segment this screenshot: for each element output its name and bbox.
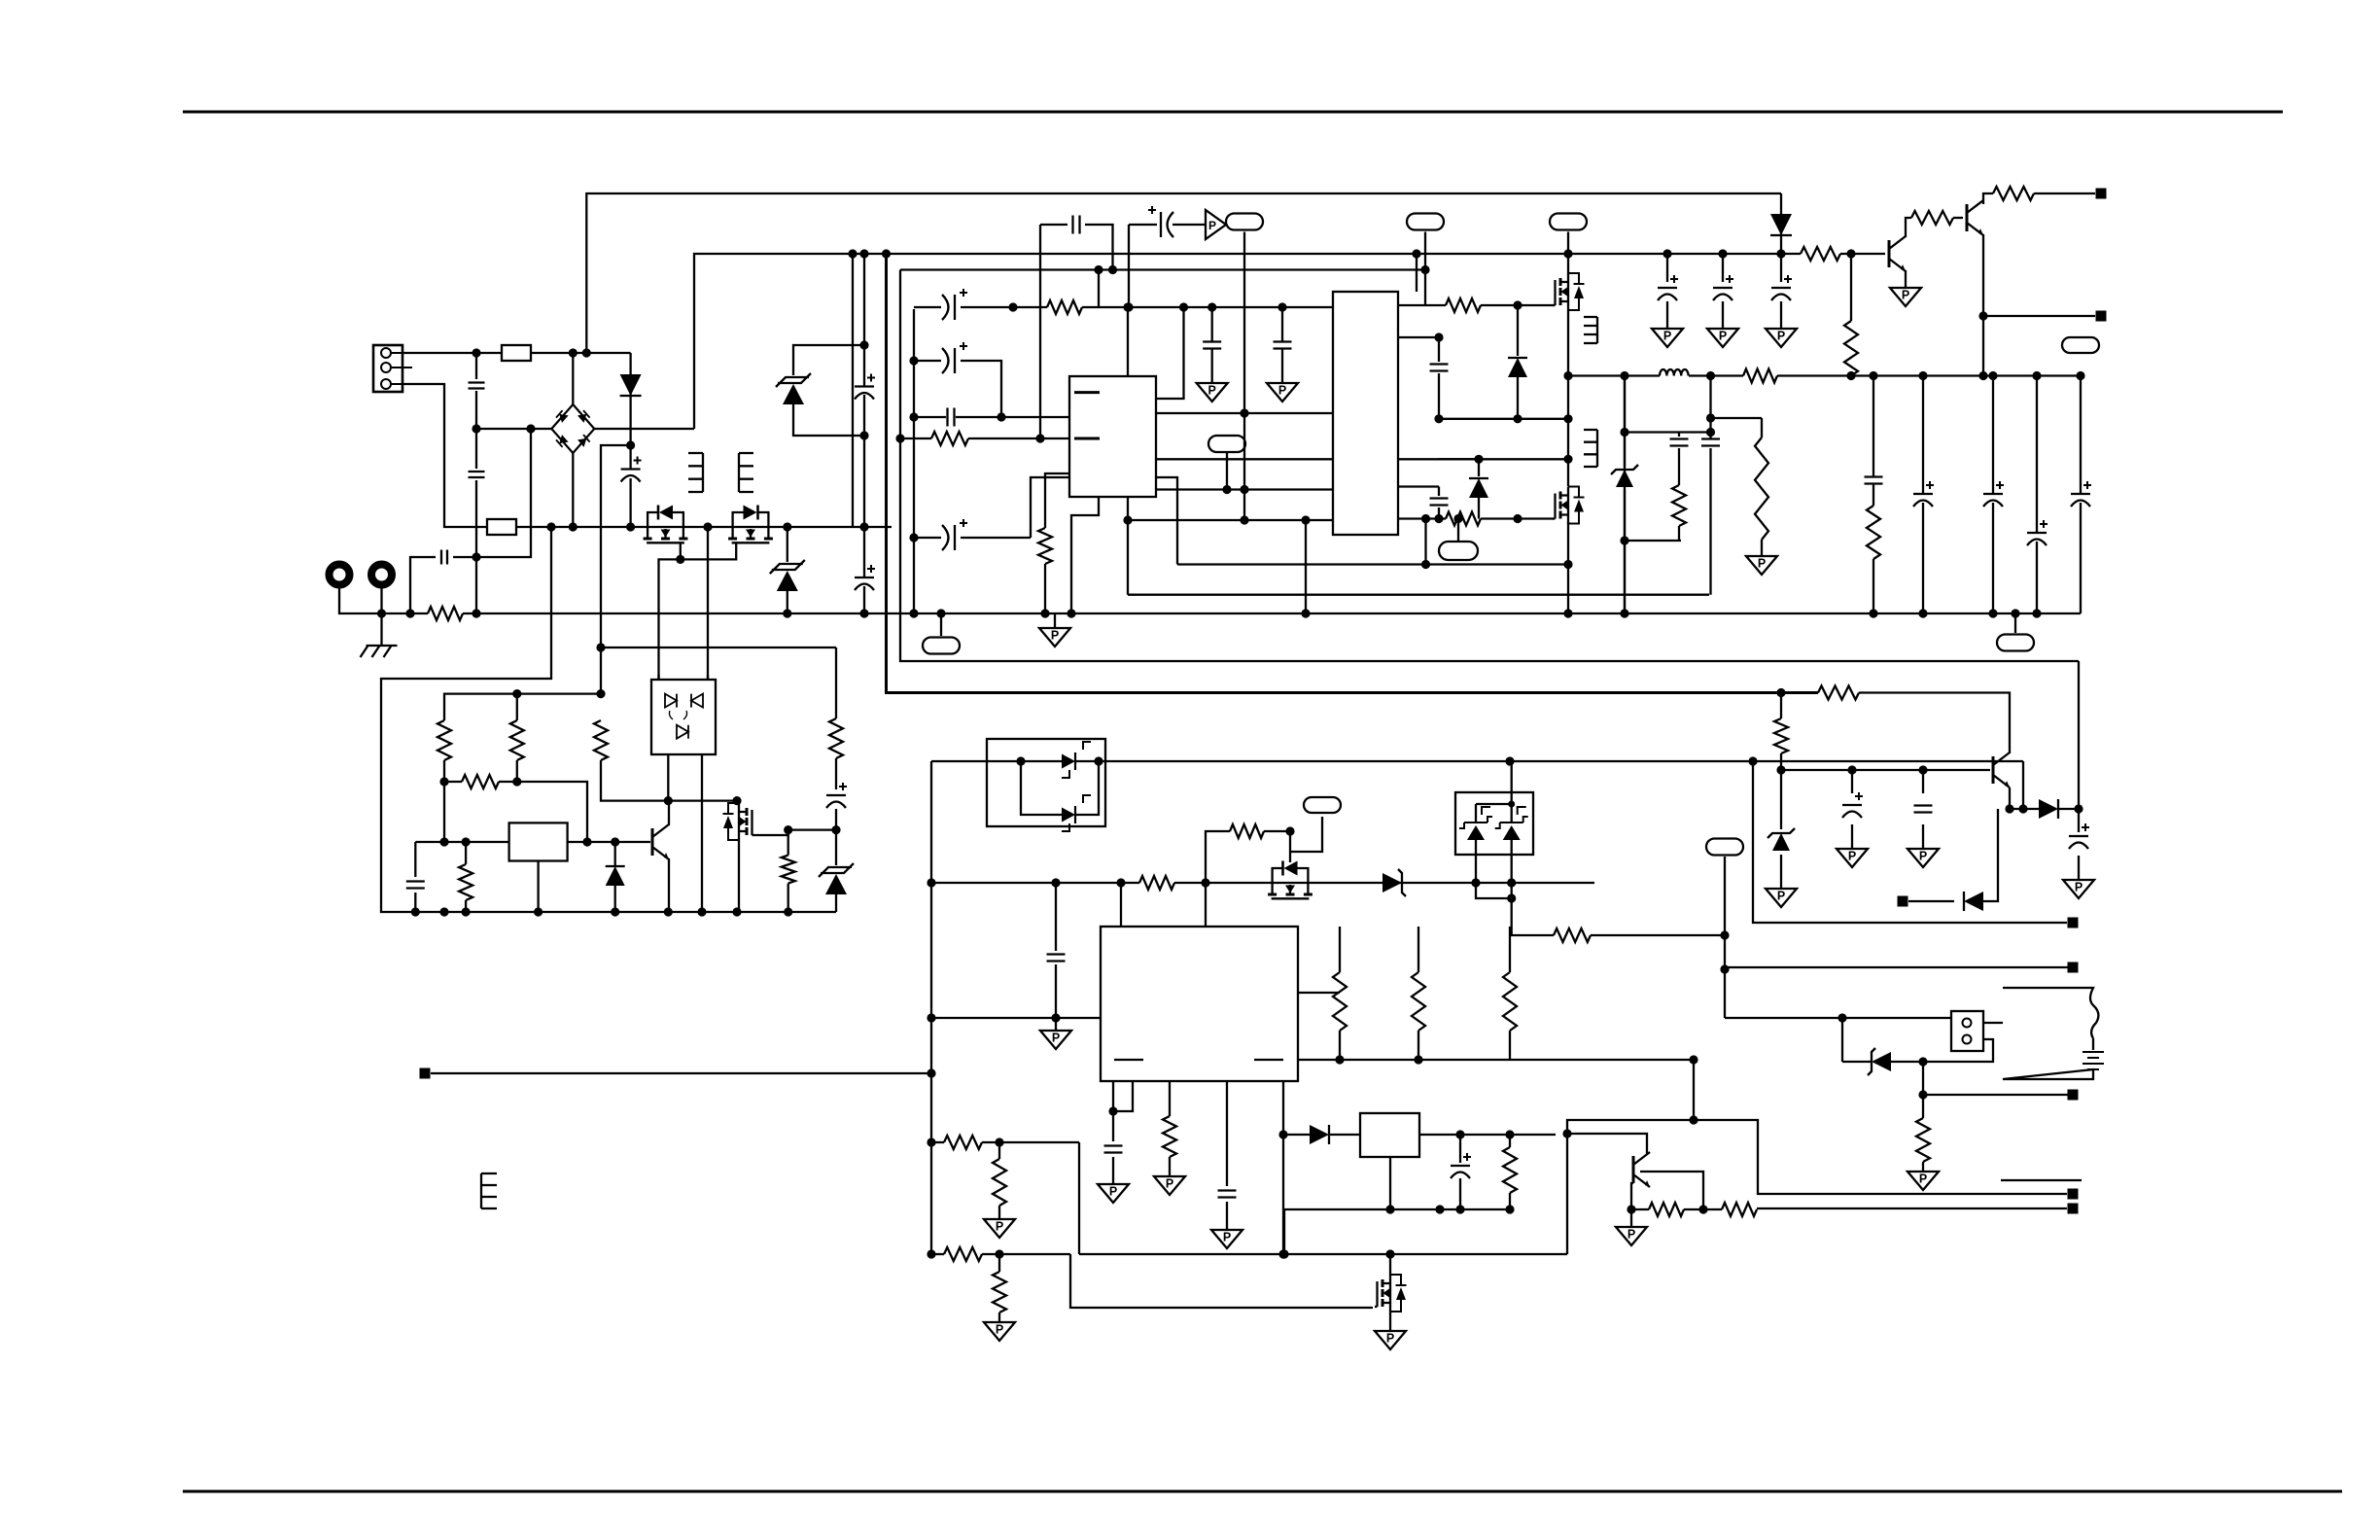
junction bbox=[472, 424, 480, 433]
wire bbox=[998, 1206, 1000, 1219]
wire bbox=[1339, 927, 1341, 972]
wire bbox=[1156, 477, 1177, 565]
wire bbox=[1722, 301, 1724, 329]
wire bbox=[900, 437, 931, 439]
PC3 element A bbox=[1459, 807, 1492, 840]
junction bbox=[1978, 371, 1987, 380]
junction bbox=[1455, 1205, 1464, 1213]
terminal bbox=[420, 1068, 431, 1079]
junction bbox=[1201, 878, 1209, 887]
junction bbox=[1706, 371, 1715, 380]
junction bbox=[2032, 371, 2041, 380]
junction bbox=[1434, 332, 1443, 341]
terminal bbox=[2068, 1090, 2079, 1101]
wire bbox=[402, 352, 502, 354]
junction bbox=[1776, 765, 1785, 774]
capacitor C15 bbox=[1430, 365, 1449, 371]
ground bbox=[2063, 880, 2094, 898]
wire bbox=[476, 428, 551, 430]
wire bbox=[1169, 1081, 1171, 1116]
wire bbox=[1982, 234, 1984, 316]
wire bbox=[968, 437, 1069, 439]
wire bbox=[1264, 831, 1290, 862]
junction bbox=[582, 837, 591, 846]
junction bbox=[1412, 249, 1420, 258]
wire bbox=[1922, 1062, 1924, 1095]
wire bbox=[1992, 503, 1994, 613]
resistor R6 bbox=[1446, 512, 1481, 526]
capacitor C28 bbox=[1842, 792, 1863, 818]
ground bbox=[1652, 329, 1683, 347]
junction bbox=[859, 431, 868, 439]
wire (cap ladder bus) bbox=[913, 309, 915, 613]
wire bbox=[1476, 883, 1512, 898]
resistor R31 bbox=[1503, 972, 1517, 1031]
wire bbox=[572, 453, 574, 527]
wire bbox=[1417, 1031, 1419, 1060]
junction bbox=[1474, 455, 1483, 464]
junction bbox=[927, 1137, 935, 1146]
svg-text:P: P bbox=[1052, 1032, 1060, 1045]
junction bbox=[1918, 609, 1927, 617]
wire bbox=[1205, 883, 1207, 927]
junction bbox=[831, 825, 840, 834]
svg-text:P: P bbox=[1719, 330, 1727, 343]
terminal bbox=[2068, 1189, 2079, 1200]
net label bbox=[1997, 635, 2034, 651]
junction bbox=[859, 522, 868, 531]
wire bbox=[531, 352, 631, 354]
junction bbox=[1869, 609, 1877, 617]
wire bbox=[1684, 1208, 1722, 1210]
wire bbox=[788, 828, 836, 830]
wire bbox=[1079, 1253, 1567, 1255]
junction bbox=[1720, 964, 1729, 973]
resistor R8 bbox=[1672, 485, 1686, 526]
wire bbox=[1438, 507, 1440, 519]
wire bbox=[1120, 883, 1122, 927]
wire bbox=[1226, 452, 1228, 490]
svg-text:P: P bbox=[2075, 881, 2082, 894]
bottom border rule bbox=[183, 1490, 2342, 1493]
junction bbox=[703, 522, 712, 531]
wire bbox=[1481, 304, 1554, 306]
wire bbox=[1678, 526, 1680, 541]
terminal bbox=[2096, 189, 2107, 199]
wire bbox=[1624, 490, 1626, 613]
junction bbox=[1620, 536, 1628, 544]
optocoupler PC2 bbox=[987, 739, 1105, 826]
wire bbox=[1075, 761, 1099, 815]
wire bbox=[380, 584, 382, 646]
ground bbox=[1766, 329, 1797, 347]
wire bbox=[1840, 253, 1885, 255]
wire bbox=[1282, 1081, 1284, 1254]
wire bbox=[601, 647, 836, 648]
wire bbox=[475, 391, 477, 469]
junction bbox=[582, 348, 591, 357]
wire bbox=[1872, 484, 1874, 506]
resistor R26 bbox=[993, 1159, 1006, 1206]
wire bbox=[1923, 1094, 2068, 1096]
wire bbox=[982, 361, 1001, 417]
junction bbox=[462, 837, 471, 846]
wire bbox=[1075, 760, 1510, 762]
wire bbox=[1517, 305, 1519, 356]
junction bbox=[1507, 878, 1516, 887]
junction bbox=[534, 907, 542, 916]
resistor R5 bbox=[1446, 298, 1481, 312]
wire bbox=[1127, 307, 1129, 376]
junction bbox=[697, 907, 706, 916]
capacitor C22 bbox=[826, 783, 847, 808]
junction bbox=[2005, 804, 2013, 813]
wire bbox=[835, 809, 837, 830]
junction bbox=[783, 609, 791, 617]
wire bbox=[1113, 1081, 1133, 1111]
junction bbox=[1689, 1115, 1697, 1124]
battery B1 bbox=[2003, 988, 2104, 1079]
wire bbox=[465, 842, 467, 864]
wire bbox=[443, 760, 445, 842]
capacitor C8 bbox=[1203, 342, 1221, 349]
capacitor C3 bbox=[621, 457, 642, 482]
wire (standby HV feed) bbox=[586, 193, 1781, 353]
junction bbox=[1776, 688, 1785, 697]
wire bbox=[961, 360, 982, 362]
wire bbox=[1389, 1157, 1391, 1209]
wire bbox=[476, 429, 531, 557]
junction bbox=[1718, 249, 1727, 258]
optocoupler PC3 (dual photo-thyristor) bbox=[1455, 792, 1533, 855]
ground bbox=[1206, 210, 1226, 239]
wire bbox=[1624, 376, 1626, 468]
wire bbox=[1290, 817, 1322, 852]
junction bbox=[927, 1013, 935, 1022]
junction bbox=[1505, 1130, 1514, 1138]
junction bbox=[1706, 413, 1715, 422]
junction bbox=[1988, 371, 1997, 380]
wire bbox=[701, 754, 703, 912]
zener diode D12 bbox=[1868, 1048, 1891, 1075]
junction bbox=[1869, 371, 1877, 380]
junction bbox=[1508, 801, 1515, 808]
svg-text:P: P bbox=[1278, 384, 1286, 398]
junction bbox=[1620, 428, 1628, 437]
capacitor C30 bbox=[2069, 823, 2089, 849]
svg-text:P: P bbox=[1848, 850, 1856, 863]
wire bbox=[1992, 376, 1994, 495]
wire bbox=[1281, 349, 1283, 383]
junction bbox=[2032, 609, 2041, 617]
wire bbox=[1438, 373, 1440, 419]
wire bbox=[1055, 1018, 1057, 1031]
wire bbox=[982, 1253, 1070, 1255]
wire bbox=[940, 613, 942, 636]
wire (secondary loop A) bbox=[887, 254, 1819, 693]
optocoupler PC1 bbox=[651, 680, 716, 754]
wire bbox=[1474, 882, 1594, 884]
wire bbox=[1112, 1081, 1114, 1111]
net label bbox=[1706, 839, 1743, 856]
wire bbox=[1040, 224, 1067, 226]
diode D2b bbox=[1469, 478, 1488, 498]
fuse F2 bbox=[487, 519, 516, 535]
wire bbox=[1055, 964, 1057, 1018]
junction bbox=[1421, 560, 1430, 569]
wire bbox=[444, 694, 601, 720]
wire bbox=[1329, 1134, 1360, 1136]
wire (charger feed) bbox=[1510, 760, 2023, 762]
capacitor C20 bbox=[1670, 439, 1689, 446]
wire (+B output bus) bbox=[1777, 374, 2081, 376]
junction bbox=[472, 552, 480, 561]
resistor R23 bbox=[1163, 1116, 1176, 1157]
resistor R12 bbox=[1911, 211, 1953, 225]
wire bbox=[1021, 760, 1062, 762]
wire bbox=[1459, 1178, 1461, 1209]
wire bbox=[1724, 935, 1726, 969]
junction bbox=[1776, 249, 1785, 258]
resistor R27 bbox=[944, 1247, 982, 1261]
IC U1 (PFC controller) bbox=[1069, 376, 1156, 497]
MOSFET Q3 bbox=[1553, 273, 1585, 310]
wire bbox=[1640, 1172, 1703, 1209]
wire bbox=[1922, 1095, 1924, 1118]
junction bbox=[1507, 893, 1516, 902]
junction bbox=[1698, 1205, 1707, 1213]
wire bbox=[1070, 1254, 1373, 1308]
wire bbox=[1567, 1134, 1647, 1154]
junction bbox=[526, 424, 535, 433]
MOSFET Q2 bbox=[728, 506, 773, 543]
ground bbox=[1616, 1227, 1647, 1245]
wire bbox=[961, 537, 1031, 539]
junction bbox=[1689, 1055, 1697, 1064]
wire bbox=[667, 754, 669, 801]
wire bbox=[1509, 1193, 1511, 1209]
junction bbox=[1278, 1130, 1287, 1138]
wire bbox=[1724, 969, 1726, 1018]
wire bbox=[1567, 310, 1569, 486]
capacitor C25 bbox=[1104, 1146, 1123, 1153]
IC U4 (standby controller) bbox=[1101, 927, 1298, 1081]
wire bbox=[1567, 565, 1569, 614]
wire bbox=[1872, 559, 1874, 613]
ground bbox=[1211, 1230, 1242, 1248]
diode D10 bbox=[2039, 799, 2058, 819]
junction bbox=[664, 796, 673, 805]
wire bbox=[982, 1141, 1079, 1143]
junction bbox=[569, 522, 577, 531]
optocoupler PC2 LED2 bbox=[1062, 795, 1091, 831]
junction bbox=[1277, 302, 1286, 311]
capacitor C6 bbox=[441, 550, 447, 565]
junction bbox=[512, 689, 521, 698]
junction bbox=[1207, 302, 1216, 311]
junction bbox=[626, 440, 635, 449]
wire bbox=[1085, 225, 1113, 270]
junction bbox=[1513, 300, 1522, 309]
wire bbox=[629, 353, 631, 469]
wire bbox=[914, 360, 941, 362]
wire bbox=[1780, 770, 1782, 829]
wire bbox=[852, 254, 854, 527]
wire bbox=[1851, 770, 1853, 793]
wire bbox=[475, 353, 477, 379]
ground bbox=[1707, 329, 1738, 347]
junction bbox=[611, 837, 619, 846]
ground bbox=[1267, 383, 1298, 402]
wire bbox=[1424, 519, 1426, 565]
junction bbox=[1988, 609, 1997, 617]
svg-text:P: P bbox=[1051, 629, 1059, 643]
capacitor C10 bbox=[942, 342, 967, 373]
wire bbox=[1780, 693, 1782, 719]
AC terminal E1 bbox=[330, 565, 350, 585]
winding T1a bbox=[1584, 317, 1597, 343]
ground bbox=[1907, 849, 1939, 867]
resistor R9b bbox=[1755, 437, 1768, 540]
ground bbox=[1890, 288, 1921, 306]
transistor Q5 bbox=[1889, 236, 1906, 271]
wire bbox=[1780, 301, 1782, 329]
junction bbox=[377, 609, 386, 617]
capacitor C20b bbox=[1701, 439, 1720, 446]
resistor R9 bbox=[1867, 506, 1880, 559]
junction bbox=[995, 1249, 1003, 1258]
capacitor C24 bbox=[1047, 955, 1066, 962]
wire bbox=[1424, 232, 1426, 270]
wire (blank label line) bbox=[2001, 1179, 2082, 1181]
ground bbox=[1197, 383, 1228, 402]
wire bbox=[931, 1017, 1101, 1019]
junction bbox=[997, 412, 1005, 421]
svg-text:P: P bbox=[1208, 219, 1216, 232]
wire bbox=[1922, 503, 1924, 613]
junction bbox=[1748, 756, 1757, 765]
MOSFET Q8 bbox=[723, 803, 755, 840]
junction bbox=[732, 907, 741, 916]
junction bbox=[1513, 514, 1522, 523]
junction bbox=[927, 1068, 935, 1077]
wire bbox=[1419, 1134, 1556, 1136]
wire bbox=[1724, 857, 1726, 935]
svg-text:P: P bbox=[1208, 384, 1216, 398]
junction bbox=[1040, 609, 1049, 617]
wire bbox=[2078, 856, 2080, 880]
junction bbox=[936, 609, 945, 617]
capacitor C16 bbox=[1913, 481, 1934, 507]
junction bbox=[611, 907, 619, 916]
junction bbox=[2076, 371, 2084, 380]
wire bbox=[1780, 254, 1782, 282]
svg-text:P: P bbox=[1109, 1185, 1117, 1199]
wire bbox=[1908, 900, 1954, 902]
optocoupler PC2 LED1 bbox=[1062, 742, 1091, 778]
wire bbox=[629, 478, 631, 527]
svg-text:P: P bbox=[1758, 557, 1766, 571]
wire bbox=[1389, 1312, 1391, 1331]
wire bbox=[657, 675, 659, 680]
wire bbox=[1476, 803, 1512, 805]
wire bbox=[787, 830, 789, 856]
junction bbox=[472, 348, 480, 357]
net label bbox=[1439, 542, 1478, 560]
wire bbox=[1457, 519, 1459, 542]
capacitor C15b bbox=[1430, 499, 1449, 506]
capacitor C7 bbox=[942, 289, 967, 320]
junction bbox=[1563, 371, 1572, 380]
wire bbox=[961, 306, 1047, 308]
wire bbox=[1156, 488, 1333, 490]
junction bbox=[676, 555, 684, 564]
junction bbox=[1067, 609, 1075, 617]
capacitor C27 bbox=[1451, 1153, 1471, 1178]
wire bbox=[1922, 1162, 1924, 1172]
IC U5 (regulator) bbox=[1360, 1113, 1419, 1157]
terminal bbox=[2096, 311, 2107, 322]
wire bbox=[1481, 517, 1554, 519]
ground bbox=[984, 1219, 1015, 1238]
wire bbox=[444, 781, 462, 783]
wire (primary ground bus) bbox=[463, 612, 2081, 614]
junction bbox=[569, 348, 577, 357]
capacitor C21 bbox=[1865, 477, 1883, 484]
winding mark bbox=[481, 1173, 497, 1208]
net label bbox=[2062, 337, 2099, 353]
net label bbox=[923, 638, 960, 654]
wire bbox=[793, 345, 864, 375]
wire bbox=[1511, 840, 1513, 883]
wire bbox=[1725, 1017, 1951, 1019]
junction bbox=[1116, 878, 1125, 887]
junction bbox=[1918, 1090, 1927, 1099]
IC U3 (shunt regulator) bbox=[509, 822, 568, 860]
junction bbox=[1035, 434, 1044, 442]
junction bbox=[784, 825, 792, 834]
wire bbox=[738, 840, 740, 912]
wire bbox=[1226, 1081, 1228, 1186]
wire bbox=[614, 842, 616, 866]
resistor R20 bbox=[782, 856, 795, 884]
wire bbox=[2014, 613, 2016, 633]
junction bbox=[596, 643, 605, 651]
ground bbox=[1039, 628, 1070, 647]
transistor Q7 bbox=[652, 824, 669, 859]
wire bbox=[1567, 232, 1569, 255]
wire bbox=[1982, 316, 1984, 376]
wire bbox=[1624, 376, 1626, 614]
resistor R21 bbox=[1139, 876, 1174, 890]
junction bbox=[732, 796, 741, 805]
PC3 element B bbox=[1495, 807, 1528, 840]
connector J2 bbox=[1951, 1011, 1983, 1051]
junction bbox=[995, 1137, 1003, 1146]
wire bbox=[1226, 1202, 1228, 1230]
junction bbox=[1385, 1205, 1394, 1213]
wire bbox=[1851, 824, 1853, 849]
wire bbox=[1082, 306, 1333, 308]
wire bbox=[2010, 808, 2039, 810]
junction bbox=[1846, 249, 1855, 258]
resistor R33 bbox=[1774, 718, 1788, 753]
junction bbox=[1563, 560, 1572, 569]
wire bbox=[1281, 307, 1283, 341]
junction bbox=[1706, 428, 1715, 437]
resistor R19 bbox=[462, 775, 499, 788]
wire bbox=[1509, 1135, 1511, 1147]
